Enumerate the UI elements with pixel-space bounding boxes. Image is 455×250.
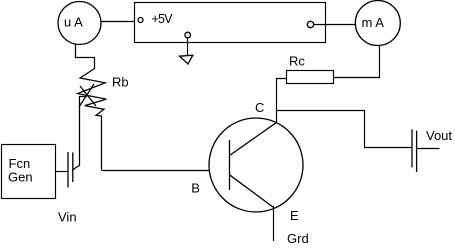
- svg-text:m A: m A: [362, 15, 385, 30]
- svg-text:Grd: Grd: [287, 231, 309, 246]
- svg-text:C: C: [255, 100, 264, 115]
- svg-text:Vout: Vout: [426, 128, 452, 143]
- svg-text:Rb: Rb: [112, 75, 129, 90]
- svg-text:B: B: [191, 181, 200, 196]
- svg-text:Vin: Vin: [58, 210, 77, 225]
- svg-text:u A: u A: [64, 15, 83, 30]
- svg-text:Gen: Gen: [8, 169, 33, 184]
- svg-text:E: E: [290, 208, 299, 223]
- svg-text:+5V: +5V: [152, 12, 174, 26]
- svg-text:Rc: Rc: [289, 54, 305, 69]
